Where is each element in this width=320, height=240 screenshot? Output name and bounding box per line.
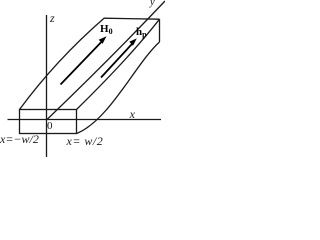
slab top-right edge <box>77 19 160 109</box>
slab top-left edge <box>20 18 105 110</box>
arrow H0 <box>61 36 107 84</box>
slab back top edge <box>104 18 160 19</box>
label z axis <box>50 12 55 24</box>
label origin 0 <box>47 121 53 132</box>
label y axis <box>150 0 155 9</box>
slab front face <box>20 110 77 134</box>
slab back right edge <box>159 19 161 42</box>
label hp pump field <box>136 27 147 39</box>
z axis <box>46 15 48 157</box>
y axis <box>47 1 165 120</box>
label H0 static field <box>100 24 113 36</box>
label x=-w/2 strip edge <box>0 133 39 145</box>
x axis <box>8 119 162 121</box>
label x=w/2 strip edge <box>67 135 104 147</box>
slab bottom-right edge <box>77 42 160 134</box>
label x axis <box>130 108 135 120</box>
arrow hp <box>101 38 137 77</box>
